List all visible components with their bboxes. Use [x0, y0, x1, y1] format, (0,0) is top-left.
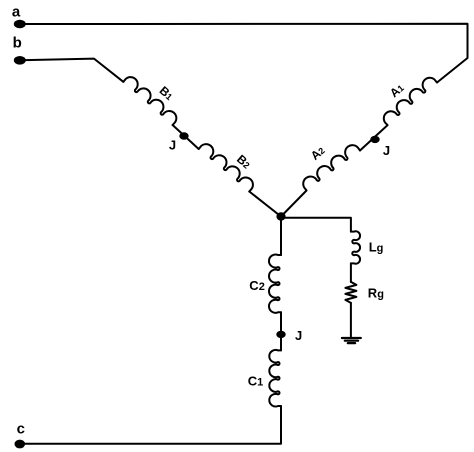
svg-text:c: c [17, 421, 25, 438]
svg-text:J: J [295, 328, 302, 343]
svg-text:b: b [13, 35, 22, 52]
svg-text:Rg: Rg [368, 285, 384, 300]
svg-text:A1: A1 [387, 81, 407, 101]
svg-text:J: J [383, 143, 390, 158]
svg-text:C2: C2 [249, 278, 265, 293]
svg-text:A2: A2 [308, 143, 328, 163]
svg-text:a: a [12, 3, 21, 20]
svg-text:J: J [169, 137, 176, 152]
svg-text:Lg: Lg [369, 239, 384, 254]
svg-text:C1: C1 [248, 374, 264, 389]
